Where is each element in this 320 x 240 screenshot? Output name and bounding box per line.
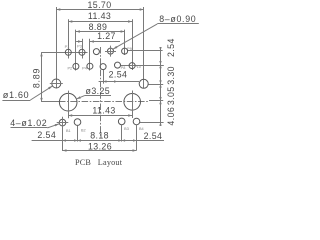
svg-text:B3: B3 xyxy=(124,127,129,131)
svg-text:P8: P8 xyxy=(121,66,126,70)
svg-text:15.70: 15.70 xyxy=(87,0,111,10)
svg-text:11.43: 11.43 xyxy=(92,105,115,115)
svg-text:ø3.25: ø3.25 xyxy=(86,86,111,96)
svg-text:4.06: 4.06 xyxy=(166,107,176,126)
svg-text:B1: B1 xyxy=(66,129,71,133)
svg-text:2.54: 2.54 xyxy=(144,131,163,141)
svg-text:P9: P9 xyxy=(127,47,132,51)
svg-text:P3: P3 xyxy=(77,45,82,49)
svg-text:B2: B2 xyxy=(81,128,86,132)
svg-text:P1: P1 xyxy=(65,45,70,49)
svg-text:P10: P10 xyxy=(134,65,141,69)
svg-text:ø1.60: ø1.60 xyxy=(3,90,30,100)
svg-text:13.26: 13.26 xyxy=(88,141,112,151)
svg-text:2.54: 2.54 xyxy=(37,130,56,140)
svg-text:P2: P2 xyxy=(67,67,72,71)
svg-text:PCB Layout: PCB Layout xyxy=(75,158,123,167)
svg-text:11.43: 11.43 xyxy=(88,11,111,21)
svg-text:2.54: 2.54 xyxy=(166,38,176,57)
svg-text:3.30: 3.30 xyxy=(166,66,176,85)
svg-text:P4: P4 xyxy=(82,67,87,71)
svg-text:2.54: 2.54 xyxy=(109,70,128,80)
svg-text:8.89: 8.89 xyxy=(32,68,42,88)
svg-text:1.27: 1.27 xyxy=(97,31,116,41)
svg-text:3.05: 3.05 xyxy=(166,86,176,105)
svg-text:8.18: 8.18 xyxy=(90,130,109,140)
svg-text:B4: B4 xyxy=(139,127,144,131)
svg-text:8–ø0.90: 8–ø0.90 xyxy=(159,14,196,24)
svg-text:4–ø1.02: 4–ø1.02 xyxy=(10,118,47,128)
